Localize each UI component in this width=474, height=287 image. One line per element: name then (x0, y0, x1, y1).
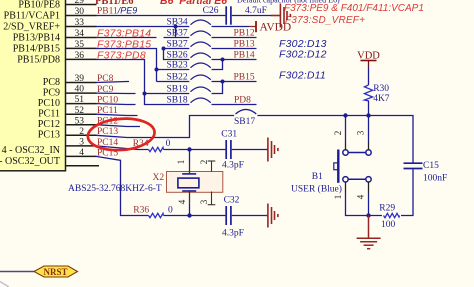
SB23 line left (157, 69, 190, 71)
svg-text:4.3pF: 4.3pF (222, 229, 244, 239)
VDD stem to R30 (368, 67, 370, 86)
svg-text:SB19: SB19 (167, 85, 188, 95)
R36 out to C32 (164, 215, 226, 217)
svg-text:4 - OSC32_IN: 4 - OSC32_IN (2, 145, 60, 156)
svg-text:PB13: PB13 (234, 40, 255, 50)
svg-text:PB11/PE9: PB11/PE9 (97, 6, 137, 17)
svg-text:SB23: SB23 (167, 61, 188, 71)
button pin3 stub (368, 116, 370, 142)
button pin numbers rotated (333, 130, 366, 199)
ground for C31 (267, 138, 278, 162)
resistor R36 (133, 206, 173, 218)
svg-text:F373:PD8: F373:PD8 (97, 49, 146, 61)
SB26 right / PB14 wire (212, 59, 257, 61)
solder bridge SB26 arc (191, 53, 211, 58)
svg-text:4.3pF: 4.3pF (222, 161, 244, 171)
svg-text:PB15: PB15 (234, 73, 255, 83)
SB17 right to button rail and down to C15 (257, 116, 413, 163)
red annotation ellipse (87, 116, 156, 152)
connector pin stubs (black) (66, 5, 100, 166)
svg-text:100: 100 (381, 220, 396, 230)
svg-text:SB26: SB26 (167, 51, 188, 61)
solder bridge SB19 arc (191, 87, 211, 92)
SB22 line left (157, 81, 190, 83)
SB19 line left (145, 93, 190, 95)
SB labels (167, 18, 256, 127)
junction crystal pin4 node (187, 213, 191, 217)
PC14 wire to R34 (96, 146, 149, 150)
svg-text:PB13/PB14: PB13/PB14 (13, 33, 60, 44)
F373 red italic labels (97, 3, 424, 61)
junction PB15 net (221, 80, 225, 84)
svg-text:F373:PE9 & F401/F411:VCAP1: F373:PE9 & F401/F411:VCAP1 (284, 3, 424, 14)
PC11 wire dead end (96, 114, 138, 115)
svg-text:C15: C15 (423, 161, 439, 171)
junction button pin4 / ground (366, 213, 370, 217)
crystal pin2 stub (190, 161, 216, 205)
crystal pin4 wire (189, 205, 191, 216)
F302 navy italic labels (279, 38, 327, 82)
svg-text:100nF: 100nF (423, 174, 447, 184)
capacitor C26 (203, 6, 267, 25)
SB22 right / PB15 wire (212, 81, 257, 83)
NRST flag (0, 266, 78, 277)
svg-text:SB37: SB37 (167, 29, 188, 39)
C31 to ground (232, 149, 267, 151)
svg-text:4: 4 (356, 194, 366, 199)
wire pin33 row SB34 line (96, 26, 189, 28)
AVDD power bar (256, 21, 291, 33)
junction crystal pin1 node (187, 147, 191, 151)
PC15 wire down and to R36 (96, 156, 149, 215)
PC13 wire up to SB17 line (96, 116, 234, 138)
grey page margin marks (0, 282, 9, 287)
SB37 right / PB12 wire (212, 37, 257, 39)
junction SB27/SB26 left (162, 47, 166, 51)
svg-text:C32: C32 (224, 196, 240, 206)
VDD power port (357, 50, 380, 66)
svg-text:AVDD: AVDD (260, 21, 292, 33)
svg-text:PB11/E6: PB11/E6 (95, 0, 134, 7)
svg-text:R30: R30 (373, 84, 389, 94)
svg-text:PC10: PC10 (38, 98, 60, 109)
capacitor C31 (221, 129, 244, 170)
svg-text:Default capacitor (not fitted: Default capacitor (not fitted E6) (237, 0, 340, 4)
svg-text:R29: R29 (379, 203, 395, 213)
svg-text:SB27: SB27 (167, 40, 188, 50)
junction button pin3 / R30 (366, 113, 370, 117)
svg-text:PC12: PC12 (38, 119, 60, 130)
svg-text:C26: C26 (203, 6, 219, 16)
svg-text:2/SD_VREF+: 2/SD_VREF+ (3, 22, 60, 33)
solder bridge SB22 arc (191, 75, 211, 80)
ground (rotated) after C26 (271, 4, 290, 28)
resistor R34 (133, 139, 171, 152)
connector sheet-entry box (left, partially clipped) (0, 0, 66, 171)
capacitor C32 (222, 196, 244, 239)
SB18 right / PD8 wire (212, 104, 257, 106)
button pin2 stub (345, 116, 347, 142)
svg-text:B6 Partial E6: B6 Partial E6 (160, 0, 227, 7)
ground for C32 (267, 204, 278, 228)
button pin4 stub down (368, 194, 370, 216)
wire C26 to ground (232, 15, 272, 17)
net labels red right side (234, 29, 255, 106)
svg-text:VDD: VDD (357, 50, 380, 61)
svg-text:SB18: SB18 (167, 96, 188, 106)
crystal pin3 stub (211, 192, 213, 205)
junction SB23 left (155, 68, 159, 72)
wire SB34 right to AVDD bar (212, 26, 250, 28)
solder bridge SB17 arc (236, 109, 257, 114)
svg-text:PC13: PC13 (38, 130, 60, 141)
svg-text:1: 1 (333, 195, 343, 200)
junction on AVDD net to SB37 (174, 25, 178, 29)
svg-text:PC8: PC8 (43, 77, 60, 88)
svg-text:PB10/PE8: PB10/PE8 (18, 0, 60, 11)
svg-text:4: 4 (177, 199, 187, 204)
junction SB19 left (143, 92, 147, 96)
svg-text:0: 0 (168, 206, 173, 216)
solder bridge SB18 arc (191, 98, 211, 103)
wire pin30 row to C26 (96, 15, 225, 17)
resistor R30 vertical (364, 84, 389, 104)
wire pin36 row down left vertical to SB18 (96, 60, 189, 105)
pair vertical PB14 to SB23 (212, 60, 223, 70)
extra pin line below PC15 (66, 165, 100, 167)
net labels red left column (97, 6, 137, 159)
solder bridge SB23 arc (191, 63, 211, 68)
R30 bottom to rail (368, 101, 370, 116)
svg-text:PB11/VCAP1: PB11/VCAP1 (4, 11, 60, 22)
SB arcs (191, 20, 257, 114)
svg-text:3: 3 (356, 130, 366, 135)
junction PB14 net (221, 58, 225, 62)
svg-text:X2: X2 (153, 173, 165, 183)
PC9 wire dead end (96, 92, 136, 94)
crystal pin1 wire (189, 150, 191, 163)
connector pin labels inside box (0, 0, 60, 167)
PC12 wire dead end (96, 125, 140, 127)
svg-text:PB14: PB14 (234, 51, 255, 61)
pair vertical PB15 to SB19 (212, 82, 223, 94)
svg-text:R36: R36 (133, 206, 149, 216)
svg-text:PC8: PC8 (97, 74, 114, 84)
svg-text:SB22: SB22 (167, 73, 188, 83)
svg-text:2: 2 (333, 131, 343, 136)
vertical SB34 to SB37 (175, 27, 177, 38)
solder bridge SB34 arc (191, 20, 211, 25)
solder bridge SB27 arc (191, 42, 211, 47)
power port pin AVDD (red) (249, 26, 256, 28)
svg-text:PB14/PB15: PB14/PB15 (13, 44, 60, 55)
svg-text:3: 3 (199, 199, 209, 204)
PC8 wire dead end (96, 82, 129, 83)
svg-text:SB34: SB34 (167, 18, 188, 28)
SB27 line + vertical to SB26 (164, 49, 190, 60)
svg-text:PC11: PC11 (38, 109, 60, 120)
svg-text:F302:D12: F302:D12 (279, 49, 327, 61)
SB27 right / PB13 wire (212, 48, 257, 50)
svg-text:F302:D11: F302:D11 (279, 70, 326, 82)
crystal pin number labels rotated (176, 160, 209, 205)
svg-text:PC9: PC9 (97, 85, 114, 95)
PC10 wire dead end (96, 103, 136, 106)
button pin1 stub down (346, 194, 383, 216)
SB37 line (164, 37, 190, 39)
C32 to ground (232, 215, 267, 217)
svg-text:B1: B1 (312, 172, 323, 182)
svg-text:PD8: PD8 (234, 96, 251, 106)
svg-text:C31: C31 (221, 129, 237, 139)
svg-text:PB15/PD8: PB15/PD8 (17, 55, 60, 66)
svg-text:PB12: PB12 (234, 29, 255, 39)
ground below button (357, 216, 381, 249)
svg-text:F373:SD_VREF+: F373:SD_VREF+ (285, 15, 365, 26)
wire pin35 row down mid vertical (96, 49, 157, 82)
junction button pin2 (343, 113, 347, 117)
svg-text:- OSC32_OUT: - OSC32_OUT (0, 156, 60, 167)
R29 right to C15 column (401, 169, 413, 215)
svg-text:PC11: PC11 (97, 106, 118, 116)
svg-text:ABS25-32.768KHZ-6-T: ABS25-32.768KHZ-6-T (68, 184, 162, 194)
capacitor C15 (404, 161, 448, 183)
svg-text:2: 2 (199, 160, 209, 165)
wire pin34 row dead end (96, 37, 157, 39)
svg-text:PC13: PC13 (97, 127, 118, 137)
svg-text:4.7uF: 4.7uF (245, 6, 267, 16)
svg-text:USER (Blue): USER (Blue) (291, 183, 342, 194)
svg-text:0: 0 (166, 139, 171, 149)
solder bridge SB37 arc (191, 31, 211, 36)
connector pin numbers (75, 0, 85, 158)
svg-text:PC9: PC9 (43, 88, 60, 99)
top clipped text fragments (95, 0, 340, 7)
actuator bar (337, 150, 339, 183)
svg-text:4K7: 4K7 (373, 94, 390, 104)
svg-text:1: 1 (176, 160, 186, 165)
crystal X2 (68, 160, 223, 205)
push button B1 (291, 130, 371, 199)
svg-text:PC10: PC10 (97, 95, 118, 105)
svg-text:SB17: SB17 (234, 117, 255, 127)
resistor R29 (379, 203, 399, 230)
R34 out to C31 (164, 149, 226, 151)
svg-text:NRST: NRST (43, 267, 67, 277)
